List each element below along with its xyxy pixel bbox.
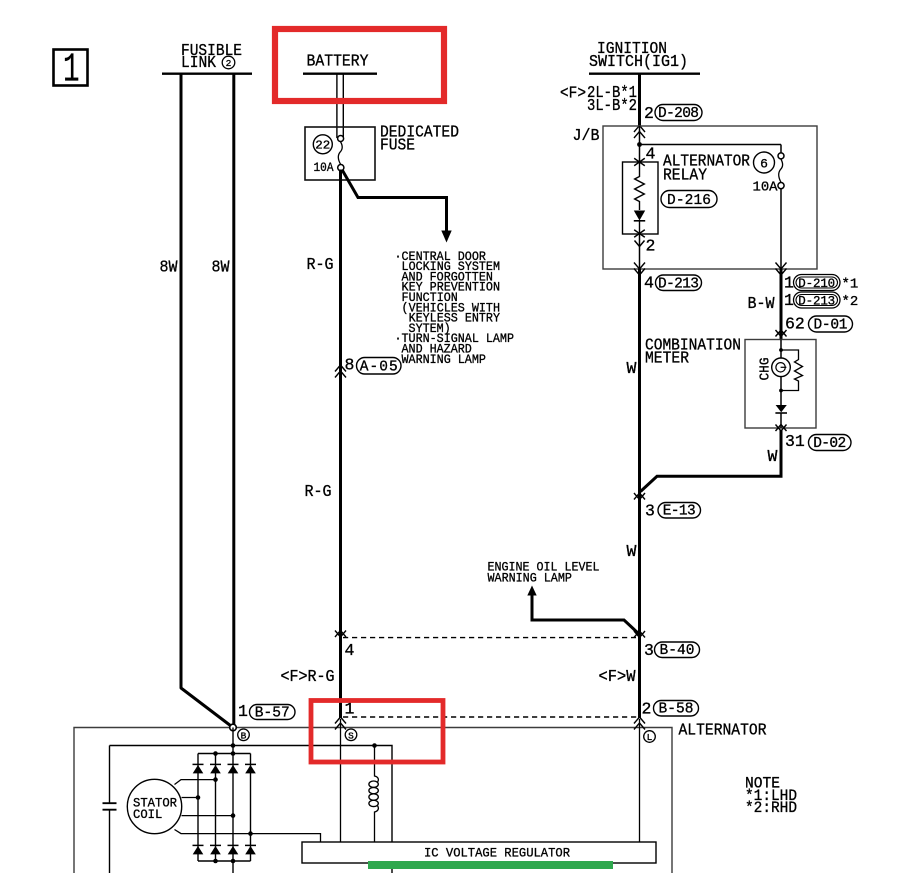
field coil lead upper [375, 746, 379, 783]
green highlight bar [368, 861, 613, 869]
svg-text:B: B [241, 730, 247, 741]
svg-text:A-05: A-05 [360, 359, 398, 375]
svg-text:10A: 10A [753, 181, 779, 196]
connector A-05 chevrons [335, 365, 346, 378]
ignition switch label [589, 39, 688, 71]
stator coil circle [127, 779, 181, 833]
svg-text:B-40: B-40 [660, 643, 695, 659]
central door locking note text [395, 249, 515, 367]
connector D-01 label [785, 315, 853, 334]
svg-text:S: S [348, 730, 354, 741]
connector D-210 label [784, 274, 858, 293]
svg-text:E-13: E-13 [663, 504, 696, 520]
svg-text:D-210: D-210 [798, 277, 835, 291]
svg-text:B-W: B-W [748, 294, 775, 313]
svg-text:8W: 8W [212, 258, 230, 277]
fuse number 22 [313, 135, 332, 154]
arrowhead J/B exit left [634, 263, 645, 276]
svg-text:J/B: J/B [573, 126, 600, 145]
svg-text:2: 2 [646, 237, 656, 256]
terminal B [238, 729, 250, 741]
svg-text:FUSE: FUSE [380, 136, 415, 155]
ignition bus bar [589, 72, 700, 74]
chevrons R-G into alternator [335, 717, 346, 730]
fuse element F22 [338, 136, 344, 171]
svg-text:8: 8 [345, 356, 355, 375]
node meter top [779, 348, 783, 352]
stator lead 2 [182, 797, 199, 799]
capacitor lead lower [109, 810, 111, 873]
wire B-W from J/B to combination meter [780, 269, 783, 340]
meter diode [775, 405, 787, 428]
node lead 4 [248, 831, 253, 836]
wire fuse 6 to J/B bottom [780, 189, 782, 269]
rectifier rail nodes [213, 751, 235, 863]
svg-text:*1: *1 [842, 277, 859, 293]
relay diode [634, 211, 645, 235]
fusible link label [181, 41, 242, 72]
svg-text:SWITCH(IG1): SWITCH(IG1) [589, 52, 688, 71]
svg-text:*2:RHD: *2:RHD [745, 799, 797, 817]
connector D-208 label [644, 104, 702, 123]
svg-text:2: 2 [644, 104, 654, 123]
dedicated fuse box [305, 127, 375, 180]
dashed link B-58 [343, 716, 637, 718]
stator lead 3 [182, 815, 234, 817]
dashed link B-40 [343, 637, 636, 639]
diode D4 top [245, 764, 256, 773]
svg-text:*2: *2 [842, 294, 859, 310]
node B-57 junction circle [230, 724, 237, 731]
svg-text:RELAY: RELAY [663, 166, 707, 185]
connector B-40 chevrons [634, 631, 645, 638]
svg-text:4: 4 [345, 641, 355, 660]
rectifier column 1 [197, 754, 199, 862]
svg-text:22: 22 [315, 140, 330, 153]
wire B internal bus [110, 746, 393, 843]
svg-text:W: W [768, 447, 778, 466]
wire 8W right [232, 74, 235, 727]
wire L to regulator [639, 719, 641, 842]
field coil L1 loops [369, 781, 378, 807]
svg-text:3L-B*2: 3L-B*2 [587, 96, 637, 115]
svg-text:ALTERNATOR: ALTERNATOR [679, 721, 767, 740]
svg-text:W: W [627, 359, 637, 378]
diode D6 bottom [210, 845, 221, 854]
dedicated fuse label [380, 123, 459, 155]
capacitor [103, 803, 117, 810]
stator lead 4 to regulator [175, 830, 321, 843]
stator lead 1 [175, 780, 216, 785]
svg-text:62: 62 [785, 315, 805, 334]
svg-text:COIL: COIL [133, 807, 162, 822]
svg-text:D-213: D-213 [798, 294, 835, 308]
wire branch to central door locking [343, 171, 447, 232]
charge warning lamp CHG [772, 358, 791, 377]
wire B node down to rectifier [232, 728, 234, 754]
svg-text:4: 4 [646, 145, 656, 164]
diode D5 bottom [193, 845, 204, 854]
wire R-G main vertical [339, 170, 342, 718]
connector A-05 label [345, 356, 402, 376]
sheet number box 1 [54, 48, 88, 94]
fuse 6 element [778, 153, 784, 189]
terminal S [345, 729, 357, 741]
red highlight box terminal S [311, 701, 443, 763]
node meter bottom [779, 389, 783, 393]
J/B junction box [603, 126, 817, 269]
terminal L [644, 731, 656, 743]
svg-text:3: 3 [645, 502, 655, 521]
svg-text:L: L [647, 732, 653, 743]
connector E-13 label [645, 502, 701, 521]
wire IG1 down [638, 74, 641, 126]
capacitor lead upper [109, 746, 111, 803]
svg-text:B-58: B-58 [659, 702, 694, 718]
rectifier column 3 [232, 754, 234, 862]
diode D3 top [228, 764, 239, 773]
svg-text:R-G: R-G [305, 482, 332, 501]
node B bus at battery wire [231, 743, 236, 748]
svg-text:1: 1 [784, 291, 794, 310]
wire W from J/B to alternator [638, 269, 641, 718]
connector B-58 label [642, 700, 699, 719]
rectifier column 2 [215, 754, 217, 862]
red highlight box battery [275, 29, 444, 101]
IC voltage regulator box [302, 842, 656, 863]
wire J/B node to relay fuse 6 [640, 145, 782, 153]
wire regulator to ground [391, 863, 393, 873]
svg-text:D-208: D-208 [658, 106, 699, 122]
svg-text:2: 2 [226, 58, 232, 69]
connector B-57 label [238, 702, 295, 721]
diode D8 bottom [245, 845, 256, 854]
rectifier bridge rails [198, 754, 251, 862]
diode D7 bottom [228, 845, 239, 854]
connector D-02 label [785, 432, 851, 452]
fuse 6 number [754, 152, 775, 173]
svg-text:D-02: D-02 [813, 436, 846, 452]
wire relay to J/B bottom [639, 234, 641, 269]
label 2L-B 3L-B [560, 83, 637, 115]
combination meter box [745, 340, 816, 429]
alternator relay label [661, 152, 750, 210]
connector D-213 label right [784, 291, 858, 310]
field coil lead lower [375, 806, 379, 842]
svg-text:1: 1 [784, 274, 794, 293]
connector D-208 chevrons at J/B entry [634, 126, 645, 139]
wire inside J/B down to relay [639, 126, 641, 162]
svg-text:WARNING LAMP: WARNING LAMP [488, 571, 572, 586]
svg-text:8W: 8W [160, 258, 178, 277]
battery bus bar [303, 72, 377, 74]
svg-text:1: 1 [63, 48, 80, 94]
chevron relay box bottom [634, 230, 645, 247]
svg-text:1: 1 [238, 702, 248, 721]
svg-text:LINK: LINK [181, 53, 216, 72]
svg-text:D-216: D-216 [667, 193, 711, 209]
connector D-02 chevrons [776, 425, 787, 432]
alternator relay box [623, 162, 659, 234]
connector chevrons on R-G at dashed B-40 [335, 631, 346, 638]
svg-text:D-01: D-01 [814, 317, 848, 333]
connector B-40 label [644, 641, 700, 660]
svg-text:CHG: CHG [759, 358, 774, 381]
connector D-01 chevrons [776, 330, 787, 337]
connector E-13 chevrons [634, 493, 645, 500]
wire 8W left [181, 74, 233, 728]
svg-text:6: 6 [760, 156, 768, 171]
stator coil label [133, 796, 177, 822]
svg-text:31: 31 [785, 432, 805, 451]
node lead 2 [196, 795, 201, 800]
node B bus at field coil [372, 743, 377, 748]
svg-text:D-213: D-213 [658, 276, 699, 292]
svg-text:4: 4 [644, 274, 654, 293]
node lead 3 [231, 813, 236, 818]
svg-text:BATTERY: BATTERY [307, 52, 369, 71]
fusible link bus bar [162, 72, 252, 74]
connector D-213 label left [644, 274, 702, 293]
note LHD RHD [745, 775, 797, 818]
arrowhead engine oil branch [527, 586, 536, 596]
diode D1 top [193, 764, 204, 773]
chevron relay box top [634, 158, 645, 165]
svg-text:W: W [627, 542, 637, 561]
svg-text:IC VOLTAGE REGULATOR: IC VOLTAGE REGULATOR [424, 846, 570, 861]
svg-text:B-57: B-57 [255, 705, 290, 721]
node lead 1 [213, 777, 218, 782]
wire meter to E-13 junction [641, 430, 782, 492]
svg-text:10A: 10A [314, 161, 334, 175]
meter shunt resistor [781, 350, 803, 391]
alternator box [74, 728, 672, 873]
wire rectifier ground stub [232, 861, 234, 873]
svg-text:3: 3 [644, 641, 654, 660]
arrowhead branch [441, 231, 451, 243]
engine oil level warning lamp note [488, 560, 600, 586]
chevrons W into alternator [634, 717, 645, 730]
svg-text:<F>: <F> [560, 84, 586, 103]
svg-text:<F>W: <F>W [599, 667, 636, 686]
wire meter top [780, 340, 782, 359]
svg-text:<F>R-G: <F>R-G [281, 667, 335, 686]
svg-text:METER: METER [645, 349, 689, 368]
rectifier column 4 [250, 754, 252, 862]
svg-text:WARNING LAMP: WARNING LAMP [395, 352, 486, 367]
combination meter label [645, 336, 741, 368]
svg-text:2: 2 [642, 700, 652, 719]
arrowhead J/B exit right [776, 263, 787, 276]
battery double wire [337, 74, 343, 138]
svg-text:R-G: R-G [307, 255, 334, 274]
relay coil resistor [635, 162, 645, 210]
node junction in J/B [637, 142, 642, 147]
diode D2 top [210, 764, 221, 773]
wire branch engine oil lamp [532, 595, 640, 635]
wire S to regulator [340, 719, 342, 842]
wire lamp to diode [780, 377, 782, 405]
